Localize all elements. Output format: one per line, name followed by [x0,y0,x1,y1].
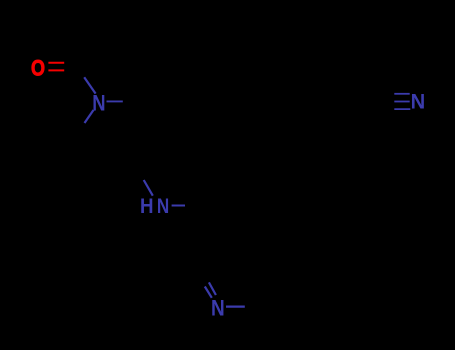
bond N1 to C2 right (blue half) [107,100,123,102]
svg-text:H: H [140,194,154,218]
svg-text:N: N [92,91,105,116]
bond pyridine C2=N double bond outer line (blue half) [205,287,212,298]
bond pyridine C2=N double bond inner line (blue half) [209,282,216,295]
bond pyridine N to C6 right (blue half) [226,306,245,308]
svg-text:O: O [31,56,45,81]
bond carbonyl C to N1 (blue half) [84,77,95,93]
svg-text:N: N [411,91,426,114]
bond nitrile C#N triple bond middle line (blue half) [394,101,409,103]
bond C=O double bond lower line [48,69,64,71]
bond NH to CH right (blue half) [172,205,185,207]
bond N1 to C6 down-left (blue half) [85,110,94,123]
bond nitrile C#N triple bond top line (blue half) [394,93,409,95]
bond C4 to NH (blue half) [144,180,153,196]
bond nitrile C#N triple bond bottom line (blue half) [394,108,410,110]
svg-text:N: N [157,194,169,218]
svg-text:N: N [211,296,225,321]
bond C=O double bond upper line [48,62,64,64]
